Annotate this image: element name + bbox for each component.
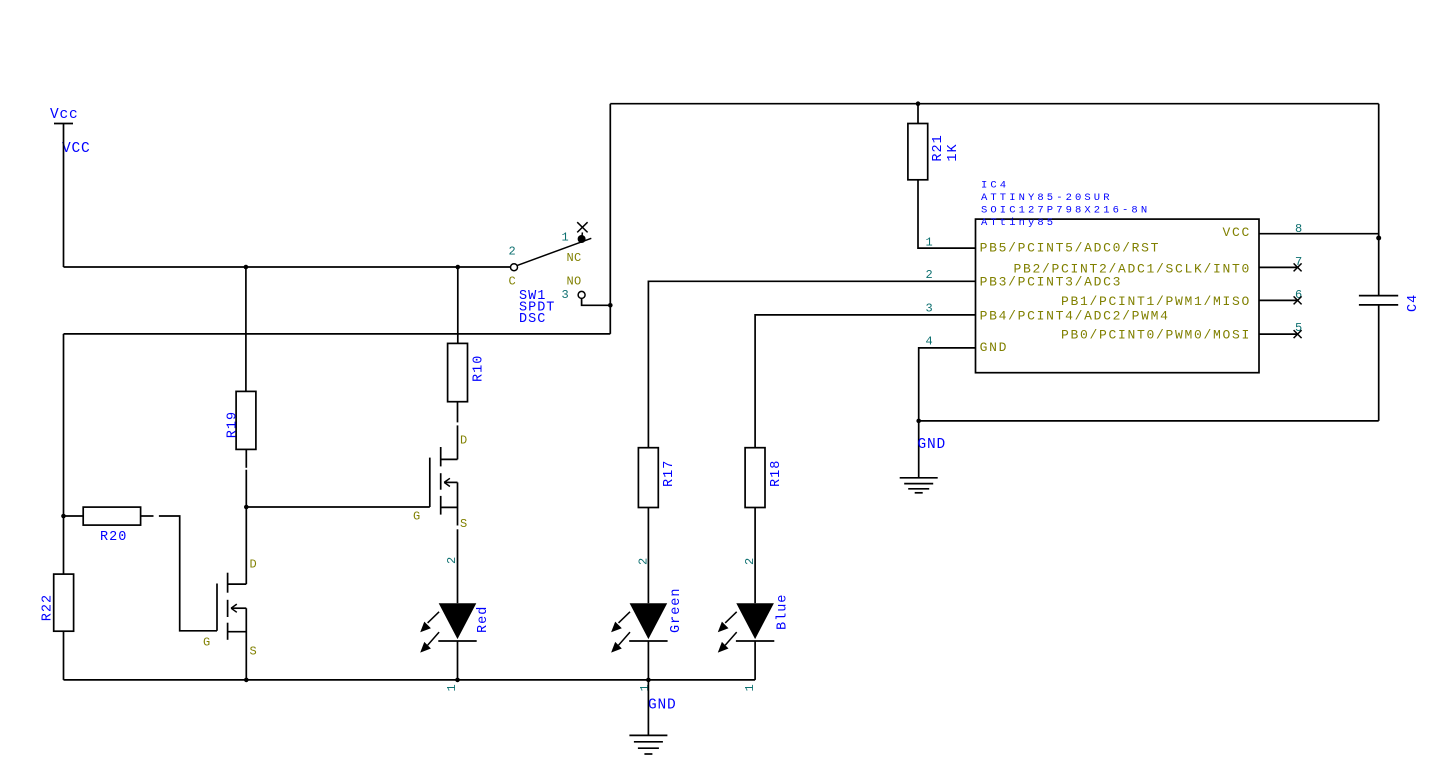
svg-text:2: 2 [743, 558, 757, 565]
wire blue LED to bus [754, 641, 756, 680]
wire green LED to bus [647, 641, 649, 680]
wire R20 to Q1 gate [159, 516, 217, 631]
wire R10 top lead [457, 267, 459, 343]
wire pin2 to R17 [648, 281, 975, 447]
node junction R19 top [244, 265, 249, 270]
wire Q2 source to red LED [457, 482, 459, 603]
wire VCC vertical left [63, 124, 65, 268]
resistor R21 1K [908, 104, 961, 180]
node junction bus Q1 [244, 678, 249, 683]
svg-text:R17: R17 [662, 460, 677, 487]
wire right vertical top [1378, 104, 1380, 296]
svg-text:3: 3 [926, 302, 933, 316]
pin 5 stub with X [1259, 330, 1302, 338]
wire pin8 VCC [1259, 233, 1379, 235]
transistor Q2 nmos [413, 434, 468, 532]
svg-text:R10: R10 [472, 355, 487, 382]
wire switch NO to vertical [582, 298, 611, 305]
svg-text:NO: NO [567, 274, 582, 288]
svg-text:PB4/PCINT4/ADC2/PWM4: PB4/PCINT4/ADC2/PWM4 [980, 309, 1170, 324]
switch SW1 SPDT [509, 222, 592, 327]
svg-text:GND: GND [648, 698, 677, 714]
wire pin4 to gnd [919, 348, 976, 478]
IC IC4 ATtiny85 [976, 180, 1260, 373]
svg-text:PB1/PCINT1/PWM1/MISO: PB1/PCINT1/PWM1/MISO [1061, 294, 1251, 309]
resistor R19 [226, 391, 256, 449]
svg-text:R21: R21 [931, 134, 946, 161]
resistor R17 [638, 448, 677, 508]
wire VCC rail y267 [64, 266, 511, 268]
svg-text:2: 2 [637, 558, 651, 565]
wire R19 to Q1 drain [245, 449, 247, 584]
node junction gate [244, 505, 249, 510]
node junction R21 top [916, 101, 921, 106]
svg-text:VCC: VCC [1222, 225, 1251, 240]
svg-text:S: S [460, 517, 468, 531]
svg-text:1: 1 [638, 684, 652, 691]
svg-text:1: 1 [926, 235, 933, 249]
pin 6 stub with X [1259, 296, 1302, 304]
svg-text:2: 2 [509, 245, 516, 259]
svg-text:D: D [460, 434, 468, 448]
svg-text:R20: R20 [100, 530, 127, 545]
LED Green [611, 587, 684, 652]
node junction bus gnd [646, 678, 651, 683]
LED Red [420, 603, 491, 652]
svg-text:Blue: Blue [776, 594, 791, 630]
resistor R22 [41, 574, 74, 631]
svg-text:2: 2 [445, 557, 459, 564]
node junction gnd [916, 419, 921, 424]
svg-text:1: 1 [445, 684, 459, 691]
wire R17 to green LED [647, 508, 649, 604]
wire R10 to Q2 drain [457, 402, 459, 460]
LED Blue [718, 594, 791, 653]
svg-text:Red: Red [476, 606, 491, 633]
transistor Q1 nmos [203, 558, 257, 680]
svg-text:1K: 1K [946, 143, 961, 161]
svg-text:1: 1 [562, 231, 569, 245]
svg-text:PB0/PCINT0/PWM0/MOSI: PB0/PCINT0/PWM0/MOSI [1061, 327, 1251, 342]
svg-text:IC4: IC4 [981, 180, 1009, 192]
svg-text:S: S [250, 645, 258, 659]
svg-text:GND: GND [980, 340, 1009, 355]
ground symbol bottom [629, 680, 667, 754]
wire gnd bus right [919, 420, 1379, 422]
wire rail y334 [64, 333, 611, 335]
svg-text:R19: R19 [226, 411, 241, 438]
wire red LED to bus [457, 641, 459, 680]
wire R18 to blue LED [754, 508, 756, 604]
wire bottom bus [64, 679, 756, 681]
svg-text:2: 2 [926, 268, 933, 282]
svg-text:1: 1 [743, 684, 757, 691]
node junction R20 left [61, 514, 66, 519]
resistor R20 [64, 507, 154, 545]
svg-text:Green: Green [669, 587, 684, 633]
wire pin3 to R18 [755, 315, 975, 448]
resistor R10 [448, 343, 487, 401]
ground symbol right [900, 478, 938, 493]
node junction bus red [455, 678, 460, 683]
svg-text:NC: NC [567, 251, 582, 265]
wire right vertical bottom [1378, 305, 1380, 421]
wire R19 top lead [245, 267, 247, 391]
svg-text:4: 4 [926, 335, 933, 349]
wire pin1 to IC [918, 180, 976, 248]
node junction NO [608, 303, 613, 308]
svg-text:D: D [250, 558, 258, 572]
svg-text:Vcc: Vcc [50, 107, 79, 123]
svg-text:C4: C4 [1406, 294, 1421, 312]
svg-text:C: C [509, 275, 517, 289]
node junction pin8 [1376, 236, 1381, 241]
supply VCC symbol [50, 107, 91, 157]
svg-text:GND: GND [918, 437, 947, 453]
capacitor C4 [1359, 294, 1421, 312]
svg-text:PB3/PCINT3/ADC3: PB3/PCINT3/ADC3 [980, 275, 1123, 290]
wire gate Q2 [246, 506, 429, 508]
svg-text:VCC: VCC [62, 141, 91, 157]
svg-text:DSC: DSC [519, 312, 546, 327]
pin 7 stub with X [1259, 263, 1302, 271]
wire switch vertical [609, 104, 611, 334]
svg-text:G: G [203, 636, 211, 650]
svg-text:PB5/PCINT5/ADC0/RST: PB5/PCINT5/ADC0/RST [980, 240, 1161, 255]
svg-text:PB2/PCINT2/ADC1/SCLK/INT0: PB2/PCINT2/ADC1/SCLK/INT0 [1013, 261, 1251, 276]
svg-text:R22: R22 [41, 594, 56, 621]
svg-text:G: G [413, 509, 421, 523]
wire R22 to bus [63, 631, 65, 680]
svg-text:ATTINY85-20SUR: ATTINY85-20SUR [981, 192, 1113, 204]
resistor R18 [745, 448, 784, 508]
svg-text:ATtiny85: ATtiny85 [981, 217, 1056, 229]
wire top rail y104 [610, 103, 1378, 105]
node junction R10 top [456, 265, 461, 270]
svg-text:3: 3 [562, 288, 569, 302]
svg-text:R18: R18 [769, 460, 784, 487]
wire left rail down [63, 334, 65, 574]
svg-text:SOIC127P798X216-8N: SOIC127P798X216-8N [981, 204, 1150, 216]
